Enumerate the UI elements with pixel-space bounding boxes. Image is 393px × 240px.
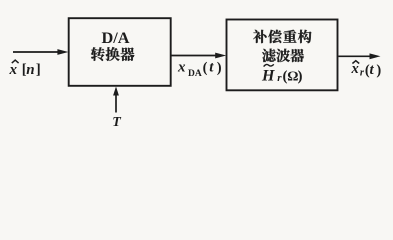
svg-text:DA: DA <box>188 69 202 79</box>
svg-text:r: r <box>277 72 282 84</box>
svg-text:x: x <box>351 61 359 77</box>
svg-text:): ) <box>376 62 381 78</box>
svg-text:]: ] <box>36 62 41 78</box>
svg-text:T: T <box>112 115 122 129</box>
svg-text:(: ( <box>203 60 208 76</box>
svg-text:): ) <box>298 68 303 84</box>
svg-text:): ) <box>217 60 222 76</box>
svg-text:x: x <box>9 62 18 78</box>
svg-text:D/A: D/A <box>101 28 129 47</box>
svg-text:H: H <box>261 68 275 85</box>
svg-text:n: n <box>26 62 34 78</box>
svg-text:x: x <box>177 60 186 76</box>
